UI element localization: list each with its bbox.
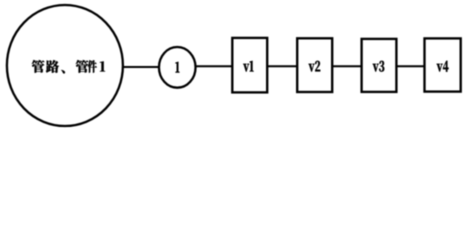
- label: v2: [309, 61, 321, 72]
- label: v1: [243, 61, 253, 72]
- label: 管路、管件 1: [32, 60, 105, 74]
- node: rectangle v2: [297, 38, 332, 92]
- label: v3: [373, 61, 385, 72]
- node: big circle (管路、管件 1): [7, 5, 123, 126]
- node: small circle (1): [159, 47, 196, 88]
- wire: v1 to v2: [268, 65, 298, 67]
- wire: big circle to small circle: [122, 66, 160, 68]
- node: rectangle v3: [362, 39, 397, 92]
- wire: small circle to v1: [196, 65, 233, 67]
- wire: v2 to v3: [332, 65, 361, 67]
- node: rectangle v1: [232, 38, 267, 93]
- label: v4: [437, 61, 449, 72]
- node: rectangle v4: [425, 38, 461, 91]
- wire: v3 to v4: [397, 65, 425, 67]
- label: 1: [176, 62, 180, 73]
